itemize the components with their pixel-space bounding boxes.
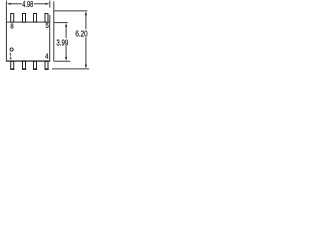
- pin stub bottom 4 (pin 4): [45, 61, 48, 68]
- dim 6.20 up arrowhead: [85, 11, 87, 15]
- pin 1 indicator circle: [10, 48, 13, 51]
- extension line top (6.20): [54, 10, 88, 12]
- dim 6.20 down arrowhead: [85, 65, 87, 69]
- extension line body top (3.99): [54, 22, 68, 24]
- dim 3.99 down arrowhead: [65, 57, 67, 61]
- svg-text:6.20: 6.20: [75, 29, 88, 38]
- dim 4.98 right arrowhead: [46, 3, 50, 5]
- svg-text:5: 5: [45, 23, 48, 30]
- dim 4.98 right extension line upper: [49, 1, 51, 8]
- svg-text:1: 1: [9, 52, 12, 61]
- body bottom edge (thick): [6, 60, 50, 62]
- pin 2 foot: [22, 68, 26, 70]
- svg-text:4: 4: [45, 53, 48, 60]
- svg-text:8: 8: [10, 24, 13, 31]
- pin stub top 1 (pin 8): [11, 14, 14, 23]
- side profile line: [53, 1, 55, 61]
- dim 6.20 line lower segment: [85, 37, 87, 65]
- dim 4.98 line left segment: [10, 3, 22, 5]
- extension line bottom (6.20): [52, 68, 89, 70]
- pin stub bottom 2 (pin 2): [23, 61, 26, 68]
- dim 3.99 line upper segment: [65, 27, 67, 38]
- dim 3.99 line lower segment: [65, 46, 67, 57]
- pin 1 foot: [10, 68, 14, 70]
- extension line body bottom (3.99): [54, 60, 70, 62]
- dim 4.98 left arrowhead: [7, 3, 11, 5]
- pin stub bottom 1 (pin 1): [11, 61, 14, 68]
- pin stub top 2 (pin 7): [23, 14, 26, 23]
- svg-text:3.99: 3.99: [56, 38, 68, 47]
- dim 3.99 up arrowhead: [65, 23, 67, 27]
- dim 4.98 right extension line lower: [49, 15, 51, 22]
- pin stub bottom 3 (pin 3): [34, 61, 37, 68]
- pin 4 foot: [45, 68, 49, 70]
- pin 3 foot: [33, 68, 37, 70]
- pin stub top 3 (pin 6): [34, 14, 37, 23]
- dim 6.20 line upper segment: [85, 15, 87, 30]
- dim 4.98 line right segment: [34, 3, 47, 5]
- package body (top view): [6, 22, 49, 61]
- svg-text:4.98: 4.98: [22, 0, 33, 9]
- pin stub top 4 (pin 5): [45, 14, 48, 23]
- dim 4.98 left extension line: [5, 1, 7, 22]
